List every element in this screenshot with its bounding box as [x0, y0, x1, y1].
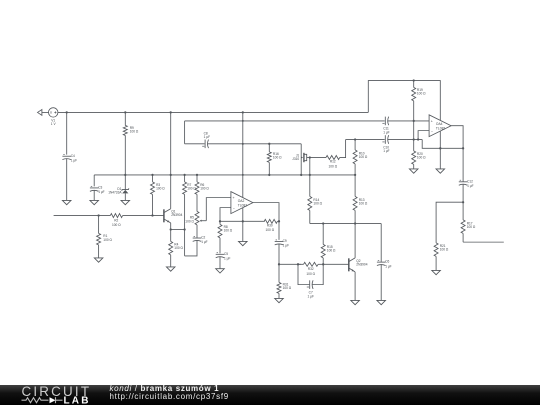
node [322, 222, 324, 224]
node [242, 174, 244, 176]
CircuitLab logo glyph (resistor + diode) [22, 397, 63, 403]
node [268, 174, 270, 176]
resistor R32 [298, 262, 323, 276]
wire [278, 244, 280, 265]
svg-text:100 Ω: 100 Ω [306, 272, 315, 276]
wire [312, 264, 323, 284]
svg-text:1N4733A: 1N4733A [108, 191, 122, 195]
svg-text:2N3904: 2N3904 [356, 263, 367, 267]
wire [66, 112, 68, 154]
node [170, 228, 172, 230]
capacitor C5 [216, 252, 231, 261]
wire [170, 175, 172, 209]
wire [310, 223, 381, 225]
wire [93, 190, 95, 200]
wire [462, 184, 464, 220]
ground [351, 300, 360, 304]
svg-text:TL082: TL082 [238, 203, 248, 207]
node [322, 263, 324, 265]
resistor R4 [169, 241, 184, 267]
resistor R30 [264, 219, 279, 232]
svg-text:−: − [431, 130, 433, 134]
node [219, 220, 221, 222]
svg-text:C6: C6 [385, 260, 389, 264]
wire [124, 135, 126, 175]
ground [216, 269, 225, 273]
node [97, 214, 99, 216]
svg-text:C12: C12 [467, 179, 473, 183]
node [183, 174, 185, 176]
resistor R31 [277, 264, 292, 298]
ground [275, 298, 284, 302]
wire [388, 139, 422, 141]
wire [309, 158, 311, 197]
wire [208, 143, 302, 145]
svg-text:100 Ω: 100 Ω [329, 164, 338, 168]
node [354, 174, 356, 176]
node [124, 111, 126, 113]
svg-text:100 Ω: 100 Ω [266, 228, 275, 232]
svg-text:+: + [431, 119, 433, 123]
capacitor C4 [62, 154, 77, 163]
node [413, 120, 415, 122]
node [170, 111, 172, 113]
resistor R2 [110, 214, 122, 228]
wire [184, 194, 186, 256]
wire [185, 143, 205, 145]
wire [340, 140, 346, 158]
svg-text:1 μF: 1 μF [204, 135, 210, 139]
svg-text:C5: C5 [224, 252, 228, 256]
wire [354, 224, 356, 258]
wire [220, 208, 231, 225]
wire [170, 112, 172, 175]
svg-text:100 Ω: 100 Ω [313, 202, 322, 206]
resistor R3 [151, 175, 166, 216]
capacitor C12 [459, 179, 474, 188]
wire [463, 241, 504, 243]
svg-text:100 Ω: 100 Ω [200, 187, 209, 191]
svg-text:100 Ω: 100 Ω [185, 220, 194, 224]
wire [185, 240, 197, 256]
capacitor C7 [307, 280, 314, 298]
wire [380, 224, 382, 262]
svg-text:100 Ω: 100 Ω [273, 156, 282, 160]
ground [121, 200, 130, 204]
resistor R21 [434, 243, 449, 271]
node [151, 174, 153, 176]
wire [54, 215, 111, 217]
wire [94, 174, 355, 176]
node [278, 263, 280, 265]
wire top rail [58, 111, 369, 113]
svg-text:1 μF: 1 μF [71, 158, 77, 162]
resistor R15 [321, 224, 336, 265]
svg-text:100 Ω: 100 Ω [417, 156, 426, 160]
wire [206, 198, 231, 221]
svg-text:−: − [233, 207, 235, 211]
wire [253, 203, 279, 240]
resistor R20 [412, 151, 426, 169]
svg-text:1 μF: 1 μF [385, 264, 391, 268]
wire [219, 238, 221, 254]
wire [451, 126, 463, 182]
node [309, 174, 311, 176]
wire [354, 272, 356, 301]
svg-text:TL082: TL082 [436, 126, 446, 130]
ground [166, 267, 175, 271]
svg-text:J310: J310 [292, 157, 299, 161]
svg-text:100 Ω: 100 Ω [283, 286, 292, 290]
node [309, 156, 311, 158]
svg-text:R2: R2 [114, 218, 118, 222]
capacitor C8 [202, 131, 210, 148]
capacitor C9 [275, 239, 289, 248]
resistor R6 [195, 175, 209, 195]
resistor R9 [123, 125, 139, 135]
svg-text:100 Ω: 100 Ω [359, 202, 368, 206]
svg-text:1 μF: 1 μF [467, 184, 473, 188]
wire [93, 175, 95, 186]
ground [432, 270, 441, 274]
node [300, 174, 302, 176]
node [242, 220, 244, 222]
svg-text:1 μF: 1 μF [283, 244, 289, 248]
node [278, 220, 280, 222]
svg-text:R12: R12 [330, 160, 336, 164]
wire [98, 245, 100, 258]
node [242, 120, 244, 122]
ground [377, 300, 386, 304]
svg-text:2N3904: 2N3904 [171, 213, 182, 217]
svg-text:LAB: LAB [64, 395, 91, 405]
node [462, 147, 464, 149]
input port IN [38, 110, 49, 116]
node [196, 174, 198, 176]
resistor R10 [353, 140, 368, 175]
resistor R17 [461, 220, 476, 242]
wire [219, 257, 221, 269]
resistor R13 [353, 175, 368, 224]
node [242, 143, 244, 145]
node [297, 263, 299, 265]
svg-text:C4: C4 [71, 154, 75, 158]
wire [298, 264, 309, 284]
wire [418, 131, 429, 140]
svg-text:100 Ω: 100 Ω [174, 246, 183, 250]
svg-text:100 Ω: 100 Ω [327, 249, 336, 253]
resistor R1 [97, 233, 113, 245]
ground [409, 169, 418, 173]
svg-text:1 V: 1 V [51, 122, 57, 126]
resistor R12 [326, 156, 340, 169]
ground [94, 258, 103, 262]
svg-text:R30: R30 [267, 224, 273, 228]
svg-text:100 Ω: 100 Ω [467, 225, 476, 229]
node [413, 79, 415, 81]
op-amp OA2 [231, 192, 253, 214]
transistor J1 [292, 153, 310, 162]
wire [124, 112, 126, 125]
wire [436, 202, 463, 243]
node [462, 201, 464, 203]
resistor R14 [308, 196, 323, 223]
ground [90, 200, 99, 204]
wire [184, 121, 186, 144]
wire [66, 159, 68, 201]
node [242, 111, 244, 113]
resistor R16 [267, 144, 282, 175]
svg-text:100 Ω: 100 Ω [440, 248, 449, 252]
resistor R19 [412, 81, 426, 121]
wire [323, 263, 348, 265]
capacitor C6 [377, 260, 392, 269]
svg-text:100 Ω: 100 Ω [359, 155, 368, 159]
node [354, 138, 356, 140]
svg-text:1 μF: 1 μF [383, 149, 389, 153]
svg-text:1 μF: 1 μF [201, 240, 207, 244]
svg-text:1 μF: 1 μF [224, 257, 230, 261]
wire [346, 139, 385, 141]
svg-text:C2: C2 [201, 236, 205, 240]
wire [171, 229, 185, 231]
ground [436, 169, 445, 173]
wire [368, 81, 440, 121]
node [413, 138, 415, 140]
wire [388, 120, 429, 122]
svg-text:100 Ω: 100 Ω [103, 238, 112, 242]
node [268, 143, 270, 145]
svg-text:C9: C9 [283, 239, 287, 243]
node [151, 214, 153, 216]
wire [300, 144, 302, 175]
ground [62, 200, 71, 204]
resistor R7 [183, 175, 197, 195]
resistor R8 [218, 224, 233, 238]
diode D1 [108, 175, 129, 201]
wire [98, 216, 100, 234]
ground [239, 241, 248, 245]
node [170, 174, 172, 176]
capacitor C3 [90, 186, 105, 195]
wire [220, 220, 265, 222]
node [124, 174, 126, 176]
op-amp OA4 [429, 115, 451, 137]
svg-text:100 Ω: 100 Ω [156, 187, 165, 191]
wire [123, 215, 164, 217]
svg-text:C3: C3 [98, 186, 102, 190]
wire [380, 264, 382, 300]
node [439, 147, 441, 149]
wire [196, 194, 198, 211]
node A [66, 111, 68, 113]
node [417, 138, 419, 140]
svg-text:R32: R32 [308, 267, 314, 271]
svg-text:100 Ω: 100 Ω [130, 130, 139, 134]
voltage source V1 [49, 108, 58, 127]
wire [279, 263, 301, 265]
wire [196, 225, 198, 238]
capacitor C11 [382, 117, 389, 135]
wire [170, 223, 172, 242]
svg-text:100 Ω: 100 Ω [417, 92, 426, 96]
wire [439, 131, 441, 169]
svg-text:1 μF: 1 μF [383, 130, 389, 134]
CircuitLab logo text [22, 383, 92, 405]
capacitor C10 [382, 135, 389, 153]
wire [310, 157, 326, 159]
svg-text:1 μF: 1 μF [307, 294, 313, 298]
svg-text:100 Ω: 100 Ω [224, 229, 233, 233]
wire [422, 140, 463, 149]
wire [185, 120, 385, 122]
potentiometer R5 [185, 211, 206, 225]
transistor Q2 [349, 258, 368, 272]
wire [413, 121, 415, 151]
svg-text:+: + [233, 196, 235, 200]
node [183, 228, 185, 230]
svg-text:1 μF: 1 μF [98, 190, 104, 194]
wire [242, 112, 244, 241]
transistor Q1 [164, 209, 183, 223]
capacitor C2 [193, 236, 208, 245]
node [354, 222, 356, 224]
svg-text:100 Ω: 100 Ω [112, 223, 121, 227]
